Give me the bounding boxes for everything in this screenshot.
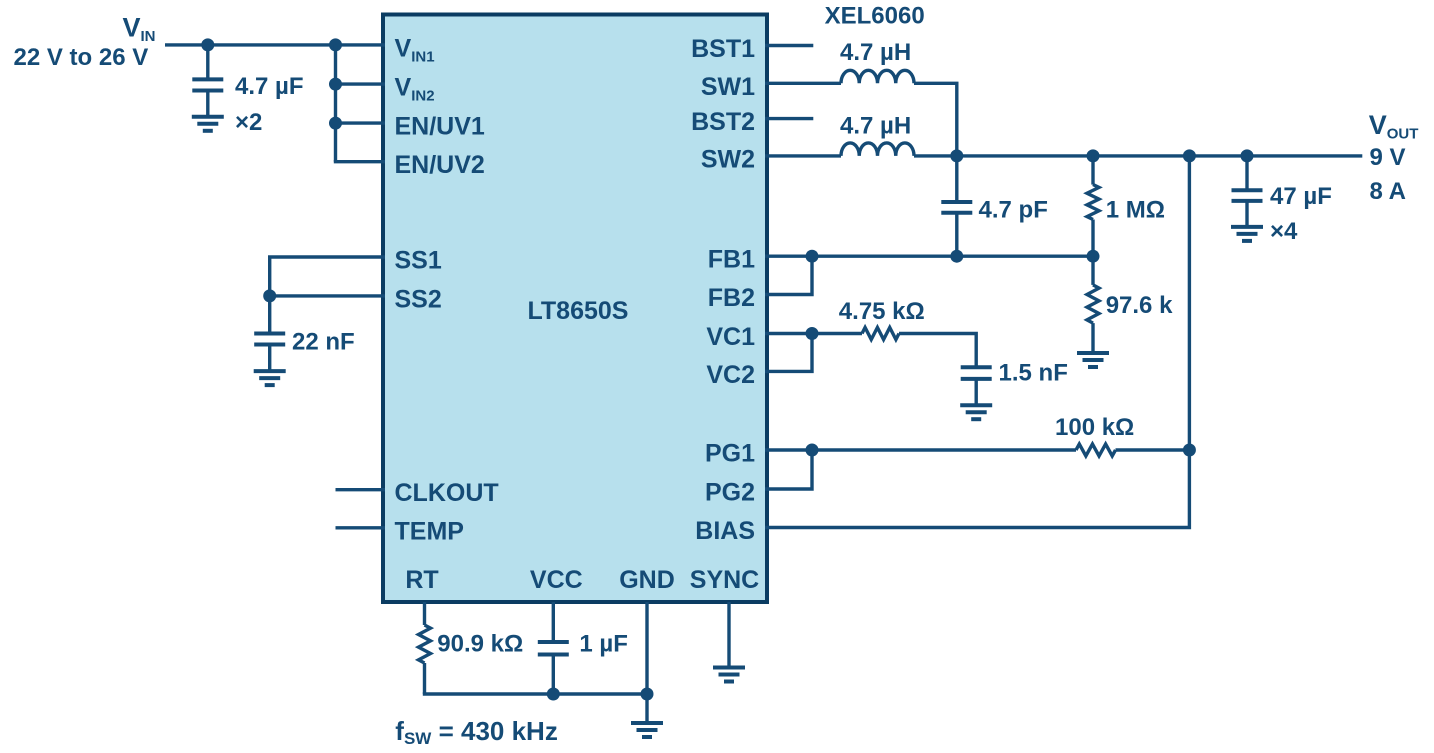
wire FB1 rail xyxy=(765,255,1093,258)
label L1 4.7 uH xyxy=(840,39,911,66)
resistor R5 90.9k xyxy=(419,625,431,663)
capacitor C5 bottom lead xyxy=(1245,201,1248,227)
capacitor C3 4.7pF top lead xyxy=(955,156,958,202)
wire BST2 stub xyxy=(765,117,813,120)
svg-text:VC2: VC2 xyxy=(706,361,755,389)
ground output cap xyxy=(1231,227,1263,241)
node junction dot BIAS riser xyxy=(1183,149,1196,162)
resistor R1 1M top lead xyxy=(1091,156,1094,185)
ground SS cap xyxy=(254,371,286,385)
svg-text:FB2: FB2 xyxy=(708,284,755,312)
svg-text:SW2: SW2 xyxy=(701,145,755,173)
svg-text:22 nF: 22 nF xyxy=(292,329,355,356)
label 9 V xyxy=(1370,144,1406,171)
svg-text:BST1: BST1 xyxy=(691,35,755,63)
pin label TEMP xyxy=(395,517,464,545)
wire SYNC drop xyxy=(727,602,730,668)
node junction dot SW xyxy=(950,149,963,162)
pin label SS2 xyxy=(395,285,442,313)
wire CLKOUT stub xyxy=(336,488,386,491)
label XEL6060 xyxy=(825,3,925,30)
label L2 4.7 uH xyxy=(840,113,911,140)
svg-text:TEMP: TEMP xyxy=(395,517,464,545)
pin label SW1 xyxy=(701,73,755,101)
wire BST1 stub xyxy=(765,44,813,47)
pin label SYNC xyxy=(690,566,759,594)
label 4.75 kOhm xyxy=(839,298,925,325)
svg-text:4.7 µF: 4.7 µF xyxy=(235,73,304,100)
ground VC cap xyxy=(960,405,992,419)
svg-text:VIN: VIN xyxy=(122,13,155,46)
label 47 uF xyxy=(1270,183,1332,210)
svg-text:4.7 µH: 4.7 µH xyxy=(840,113,911,140)
label 4.7 uF xyxy=(235,73,304,100)
svg-text:SW1: SW1 xyxy=(701,73,755,101)
pin label VIN1 xyxy=(395,34,435,65)
ground main xyxy=(631,723,663,737)
resistor R5 bottom lead xyxy=(423,663,426,694)
resistor R2 97.6k xyxy=(1087,285,1099,323)
svg-text:9 V: 9 V xyxy=(1370,144,1406,171)
pin label CLKOUT xyxy=(395,479,499,507)
ground input cap xyxy=(192,117,224,131)
pin label VC2 xyxy=(706,361,755,389)
wire SS1 xyxy=(270,257,385,296)
IC part label LT8650S xyxy=(528,297,629,325)
svg-text:4.7 pF: 4.7 pF xyxy=(979,197,1048,224)
capacitor C2 22nF lead xyxy=(268,296,271,334)
inductor L1 4.7uH xyxy=(841,70,914,83)
node junction dot PG2 join xyxy=(806,444,819,457)
capacitor C2 22nF xyxy=(254,334,285,345)
capacitor C3 bottom lead xyxy=(955,213,958,257)
wire VC1 to resistor xyxy=(765,332,862,335)
node junction dot VCC rail xyxy=(547,688,560,701)
wire VIN2 branch xyxy=(336,82,386,85)
svg-text:PG1: PG1 xyxy=(705,440,755,468)
wire TEMP stub xyxy=(336,526,386,529)
wire SS2 xyxy=(270,294,385,297)
label x4 xyxy=(1270,218,1298,245)
wire PG resistor to riser xyxy=(1116,448,1190,451)
wire EN/UV1 branch xyxy=(336,121,386,124)
ground SYNC xyxy=(713,668,745,682)
label 8 A xyxy=(1370,178,1406,205)
resistor R5 90.9k top lead xyxy=(423,602,426,625)
wire PG2 jog xyxy=(765,450,812,489)
capacitor C2 bottom lead xyxy=(268,345,271,372)
capacitor C6 bottom lead xyxy=(552,655,555,695)
svg-text:PG2: PG2 xyxy=(705,479,755,507)
label x2 xyxy=(235,109,262,136)
wire EN/UV2 branch xyxy=(334,160,385,163)
svg-text:47 µF: 47 µF xyxy=(1270,183,1332,210)
op-amp U1 LT8650S IC body xyxy=(383,15,767,603)
node junction dot ff cap join xyxy=(950,250,963,263)
wire SW2 to inductor xyxy=(765,154,841,157)
label 22 V to 26 V xyxy=(14,44,149,71)
capacitor C5 47uF xyxy=(1232,190,1263,201)
pin label PG2 xyxy=(705,479,755,507)
svg-text:LT8650S: LT8650S xyxy=(528,297,629,325)
svg-text:GND: GND xyxy=(619,566,675,594)
label 1.5 nF xyxy=(999,360,1068,387)
capacitor C1 4.7uF lead xyxy=(206,45,209,80)
node junction dot FB2 join xyxy=(806,250,819,263)
node VOUT label xyxy=(1369,110,1419,143)
wire FB2 jog xyxy=(765,256,812,294)
resistor R1 bottom lead xyxy=(1091,220,1094,257)
wire VIN input rail xyxy=(165,43,385,46)
node junction dot SS2 xyxy=(263,289,276,302)
resistor R4 100k xyxy=(1076,444,1116,456)
ground FB divider xyxy=(1077,353,1109,367)
wire SW1 inductor to corner xyxy=(914,83,957,156)
svg-text:1 MΩ: 1 MΩ xyxy=(1106,197,1165,224)
svg-text:SYNC: SYNC xyxy=(690,566,759,594)
svg-text:XEL6060: XEL6060 xyxy=(825,3,925,30)
label 1 uF xyxy=(579,631,628,658)
wire BIAS xyxy=(765,156,1189,528)
node junction dot VIN vertical xyxy=(329,38,342,51)
pin label VIN2 xyxy=(395,74,435,105)
svg-text:×2: ×2 xyxy=(235,109,262,136)
wire GND drop xyxy=(645,602,648,723)
svg-text:RT: RT xyxy=(405,566,438,594)
pin label VCC xyxy=(530,566,583,594)
resistor R2 bottom lead xyxy=(1091,323,1094,353)
capacitor C3 4.7pF xyxy=(941,202,972,213)
label 97.6 k xyxy=(1106,292,1173,319)
node junction dot 1M top xyxy=(1087,149,1100,162)
capacitor C4 bottom lead xyxy=(975,379,978,405)
svg-text:EN/UV1: EN/UV1 xyxy=(395,113,485,141)
node junction dot output cap xyxy=(1241,149,1254,162)
svg-text:22 V to 26 V: 22 V to 26 V xyxy=(14,44,149,71)
pin label FB2 xyxy=(708,284,755,312)
svg-text:×4: ×4 xyxy=(1270,218,1298,245)
wire VC2 jog xyxy=(765,334,812,372)
svg-text:90.9 kΩ: 90.9 kΩ xyxy=(437,631,523,658)
resistor R3 4.75k xyxy=(862,328,899,340)
capacitor C6 1uF top lead xyxy=(552,602,555,642)
node junction dot VC join xyxy=(806,327,819,340)
pin label PG1 xyxy=(705,440,755,468)
svg-text:VC1: VC1 xyxy=(706,323,755,351)
capacitor C6 1uF xyxy=(538,642,569,655)
capacitor C5 47uF top lead xyxy=(1245,156,1248,190)
node VIN input label xyxy=(122,13,155,46)
svg-text:4.7 µH: 4.7 µH xyxy=(840,39,911,66)
node junction dot PG riser xyxy=(1183,444,1196,457)
svg-text:1.5 nF: 1.5 nF xyxy=(999,360,1068,387)
svg-text:VCC: VCC xyxy=(530,566,583,594)
svg-text:VOUT: VOUT xyxy=(1369,110,1419,143)
wire bottom rail xyxy=(423,692,647,695)
svg-text:4.75 kΩ: 4.75 kΩ xyxy=(839,298,925,325)
node junction dot EN/UV1 xyxy=(329,117,342,130)
resistor R2 97.6k top lead xyxy=(1091,256,1094,285)
inductor L2 4.7uH xyxy=(841,143,914,156)
pin label SS1 xyxy=(395,247,442,275)
pin label FB1 xyxy=(708,246,755,274)
svg-text:SS2: SS2 xyxy=(395,285,442,313)
svg-text:FB1: FB1 xyxy=(708,246,755,274)
label 100 kOhm xyxy=(1055,414,1134,441)
svg-text:8 A: 8 A xyxy=(1370,178,1406,205)
wire PG1 rail xyxy=(765,448,1076,451)
resistor R1 1M xyxy=(1087,185,1099,220)
svg-text:100 kΩ: 100 kΩ xyxy=(1055,414,1134,441)
svg-text:fSW = 430 kHz: fSW = 430 kHz xyxy=(395,716,558,748)
label 22 nF xyxy=(292,329,355,356)
svg-text:BIAS: BIAS xyxy=(695,517,755,545)
capacitor C1 4.7uF xyxy=(192,79,223,90)
wire EN vertical bus xyxy=(334,45,337,162)
node junction dot input cap xyxy=(201,38,214,51)
pin label BST1 xyxy=(691,35,755,63)
svg-text:BST2: BST2 xyxy=(691,108,755,136)
svg-text:97.6 k: 97.6 k xyxy=(1106,292,1173,319)
label fSW = 430 kHz xyxy=(395,716,558,748)
node junction dot FB divider xyxy=(1087,250,1100,263)
wire VC1 resistor to cap xyxy=(899,334,976,368)
svg-text:1 µF: 1 µF xyxy=(579,631,628,658)
capacitor C4 1.5nF xyxy=(961,367,992,379)
svg-text:EN/UV2: EN/UV2 xyxy=(395,151,485,179)
label 1 MOhm xyxy=(1106,197,1165,224)
label 90.9 kOhm xyxy=(437,631,523,658)
pin label EN/UV2 xyxy=(395,151,485,179)
pin label GND xyxy=(619,566,675,594)
pin label BIAS xyxy=(695,517,755,545)
svg-text:CLKOUT: CLKOUT xyxy=(395,479,499,507)
svg-text:SS1: SS1 xyxy=(395,247,442,275)
label 4.7 pF xyxy=(979,197,1048,224)
pin label BST2 xyxy=(691,108,755,136)
pin label VC1 xyxy=(706,323,755,351)
wire VOUT rail xyxy=(914,154,1362,157)
pin label EN/UV1 xyxy=(395,113,485,141)
node junction dot GND rail xyxy=(641,688,654,701)
node junction dot VIN2 xyxy=(329,78,342,91)
capacitor C1 bottom lead xyxy=(206,91,209,117)
wire SW1 to inductor xyxy=(765,82,841,85)
pin label RT xyxy=(405,566,438,594)
pin label SW2 xyxy=(701,145,755,173)
